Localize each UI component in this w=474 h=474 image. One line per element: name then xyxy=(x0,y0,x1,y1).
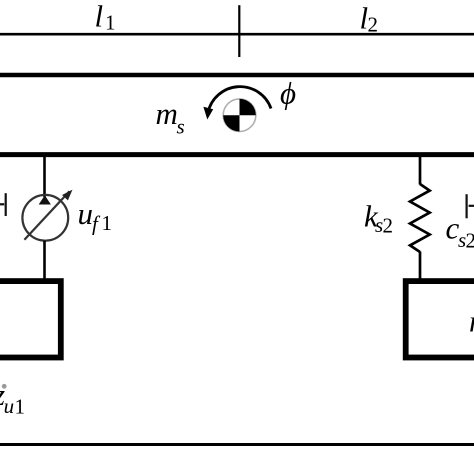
svg-text:s: s xyxy=(177,115,185,139)
svg-text:1: 1 xyxy=(15,395,26,419)
svg-text:ϕ: ϕ xyxy=(280,76,296,111)
svg-text:1: 1 xyxy=(105,11,116,35)
svg-text:u: u xyxy=(4,394,15,418)
svg-text:1: 1 xyxy=(102,211,113,235)
svg-text:2: 2 xyxy=(383,213,394,237)
svg-text:2: 2 xyxy=(368,12,379,36)
svg-text:u: u xyxy=(78,196,94,231)
svg-text:2: 2 xyxy=(466,229,474,253)
svg-text:l: l xyxy=(95,0,104,34)
svg-text:m: m xyxy=(469,304,474,339)
svg-text:m: m xyxy=(156,96,178,131)
